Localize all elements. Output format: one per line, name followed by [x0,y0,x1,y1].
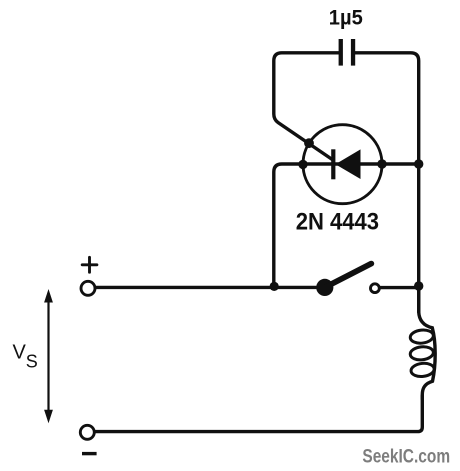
switch S1 lever [325,264,372,288]
inductor L1 loop 3 [410,362,434,377]
switch S1 pivot [316,279,333,296]
wire: top-right wire from capacitor down right side to coil top [355,53,419,312]
node: junction dot circle-left on rail [298,160,307,169]
inductor L1 spine [419,285,435,399]
op-amp U1: SCR 2N4443 body circle [303,125,382,204]
svg-text:V: V [13,342,27,364]
+ polarity mark [82,257,97,272]
terminal: - input open circle [80,425,94,439]
wire: bottom rail from - terminal to coil bottom [96,396,422,432]
svg-text:SeekIC.com: SeekIC.com [362,446,450,467]
SCR cathode bar [331,149,335,179]
node: junction dot circle-right on rail [377,159,386,168]
wire: SCR anode-cathode horizontal rail with left corner down to switch row [274,164,419,287]
capacitor C1 [339,39,356,66]
inductor L1 loop 1 [410,329,434,344]
SCR triangle (anode arrow pointing left) [335,149,360,179]
wire: switch contact to right rail [381,286,419,289]
- polarity mark [82,452,97,455]
node: junction dot left rail at switch row [270,282,279,291]
wire: top-left wire + left vertical + gate diagonal to SCR cathode [274,53,339,160]
svg-text:2N 4443: 2N 4443 [296,209,379,236]
svg-text:1µ5: 1µ5 [329,6,363,29]
Vs double-headed arrow [44,289,53,423]
node: junction dot right rail at SCR row [414,159,423,168]
switch S1 open contact [371,284,380,293]
wire: switch row from + terminal to pivot [97,286,323,289]
svg-text:S: S [26,352,38,372]
inductor L1 loop 2 [410,346,434,361]
node: gate junction dot on circle [304,138,314,148]
node: junction dot right rail at switch row [414,281,423,290]
terminal: + input open circle [81,281,95,295]
